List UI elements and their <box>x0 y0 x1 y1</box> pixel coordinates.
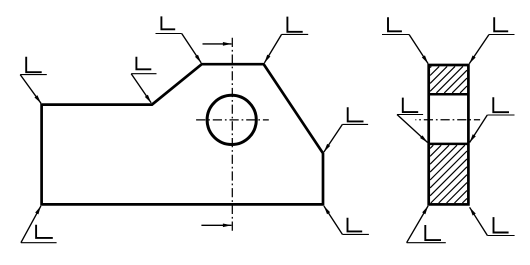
S11 perpendicularity symbol (side view mid-right) <box>470 97 515 142</box>
S6 perpendicularity symbol (bottom-left) <box>21 206 57 243</box>
section hatching (upper band) <box>430 66 467 93</box>
section viewing arrow (bottom) <box>201 224 231 226</box>
side view horizontal centreline <box>415 119 480 121</box>
section hatching (lower band) <box>430 145 467 203</box>
section viewing arrow (top) <box>203 43 232 45</box>
S13 perpendicularity symbol (side view bottom-right) <box>470 207 515 235</box>
S1 perpendicularity symbol (top-left) <box>20 57 47 104</box>
S10 perpendicularity symbol (side view mid-left) <box>397 98 428 143</box>
side view upper hole edge <box>429 93 469 96</box>
S5 perpendicularity symbol (mid-right) <box>324 107 368 152</box>
S7 perpendicularity symbol (bottom-right of front view) <box>324 206 369 234</box>
hole circle <box>207 95 256 144</box>
S9 perpendicularity symbol (side view top-right) <box>469 17 514 63</box>
front view part outline <box>42 64 323 204</box>
S4 perpendicularity symbol (top-right) <box>264 17 308 63</box>
side view rectangle outline <box>429 65 469 204</box>
side view lower hole edge <box>429 143 469 146</box>
S2 perpendicularity symbol (mid-left top) <box>131 57 156 103</box>
S12 perpendicularity symbol (side view bottom-left) <box>407 206 446 243</box>
vertical centreline / cutting plane trace <box>231 38 233 231</box>
S8 perpendicularity symbol (side view top-left) <box>382 17 428 63</box>
S3 perpendicularity symbol (top-centre) <box>156 16 202 63</box>
hole horizontal centreline <box>196 119 269 121</box>
